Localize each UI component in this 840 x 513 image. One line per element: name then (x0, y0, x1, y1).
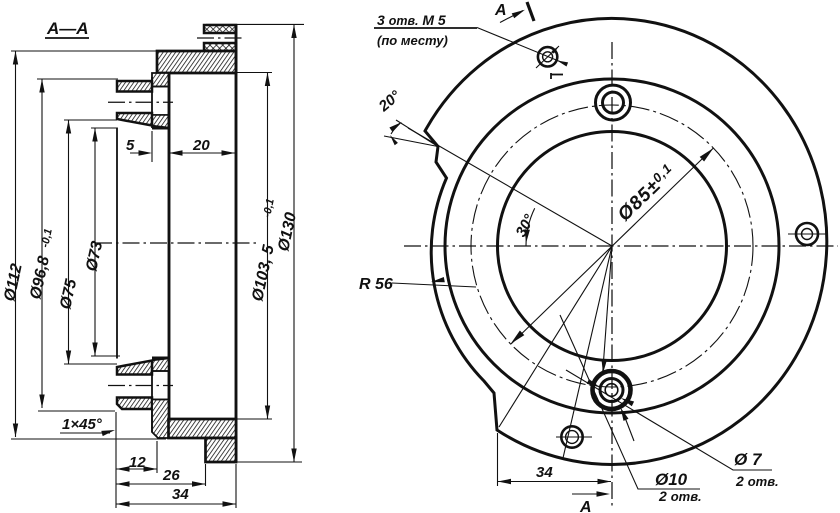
hole bottom D10 middle (600, 379, 623, 402)
arrow 34L right (223, 501, 237, 506)
upper hub hole centerline (108, 101, 173, 103)
ray 20b (384, 136, 438, 147)
vertical centerline / cutting line (611, 42, 613, 508)
svg-text:26: 26 (162, 467, 180, 484)
arrow D73 bottom (92, 343, 97, 357)
lower neck hole bottom line (152, 399, 169, 401)
arrow D130 top (291, 25, 296, 39)
hole M5 right inner (802, 229, 813, 240)
ext top D103.5 (236, 72, 272, 74)
disc right face (235, 25, 238, 462)
svg-text:2 отв.: 2 отв. (735, 473, 779, 489)
ext bottom D130 (236, 461, 302, 463)
ext top D112 (11, 50, 157, 52)
ext bottom D103.5 (236, 418, 272, 420)
arrow M5 tick (551, 46, 559, 54)
arrow D96.8 bottom (39, 395, 44, 409)
dim line 20 (168, 152, 236, 154)
arrow 5 (139, 150, 153, 155)
arrow D75 top (66, 120, 71, 134)
arrow D85 upper (700, 148, 714, 161)
arrow 34L left (116, 501, 130, 506)
svg-text:5: 5 (126, 137, 135, 154)
svg-text:Ø 7: Ø 7 (734, 450, 763, 469)
arrow D10 upper (602, 360, 607, 374)
arrow 12 left (116, 466, 130, 471)
lower neck left edge (151, 361, 153, 433)
hole bottom D7 inner (605, 384, 618, 397)
arrow 20 right (222, 150, 236, 155)
upper hub wall hatch (117, 81, 152, 92)
title underline (45, 37, 89, 39)
M5 tick line (536, 46, 559, 68)
D10 measure ray from center (603, 246, 612, 371)
M5 L-mark v (550, 73, 552, 79)
cutting plane stroke top (527, 2, 534, 21)
svg-text:34: 34 (536, 464, 553, 481)
lower neck column hatch (152, 400, 169, 439)
arrow D10 lower (621, 408, 629, 421)
dim line 34 left view (116, 503, 236, 505)
arc 30deg (526, 208, 535, 246)
arrow 20 left (169, 150, 183, 155)
main axis centerline (95, 242, 256, 244)
upper hub taper hatch (117, 113, 152, 126)
svg-text:1×45°: 1×45° (62, 416, 103, 433)
lower hub hole centerline (108, 385, 173, 387)
label D10 underline part of leader (640, 488, 700, 490)
arrow D73 top (92, 128, 97, 142)
dim line 26 (116, 483, 206, 485)
steep grazing line to D10 label (560, 315, 700, 489)
arrow 12 right (144, 466, 158, 471)
arrow D85 lower (511, 331, 525, 344)
ext top D73 (91, 127, 117, 129)
chamfer arrow (101, 430, 115, 436)
arrow M5 (557, 61, 568, 67)
view arrow A top head (512, 10, 525, 19)
arrow D75 bottom (66, 351, 71, 365)
leader D7 through hole (566, 370, 772, 470)
svg-text:3 отв. М 5: 3 отв. М 5 (377, 12, 446, 28)
ext x205.5 bottom (205, 464, 207, 486)
hole M5 top-left (538, 47, 557, 66)
dim line D73 (94, 128, 96, 356)
arrow 26 right (192, 481, 206, 486)
upper neck sliver hatch (152, 115, 169, 128)
arrow D112 top (13, 51, 18, 65)
ray through M5 bottom-left (563, 246, 612, 458)
hole M5 bottom-left centerline (556, 436, 592, 438)
ring outer circle (445, 79, 779, 413)
svg-text:Ø10: Ø10 (655, 470, 688, 489)
ray 20a (396, 120, 438, 147)
disc upper band hatch (157, 51, 236, 73)
ext top D130 (206, 23, 304, 25)
dim line D103.5 (267, 73, 269, 420)
ext bottom D96.8 (38, 410, 115, 412)
hole M5 top-left inner (543, 52, 553, 62)
dim line D85 (511, 148, 713, 344)
svg-text:2 отв.: 2 отв. (658, 488, 702, 504)
svg-text:(по месту): (по месту) (377, 33, 448, 48)
svg-text:34: 34 (172, 486, 189, 503)
lower rim solid hatch (206, 438, 237, 462)
ext x116 bottom (115, 412, 117, 508)
label M5 underline (374, 27, 477, 29)
arrow 20deg b (390, 135, 398, 145)
bore opening edge (116, 128, 118, 359)
hole M5 right (796, 223, 818, 245)
dim line D112 (15, 51, 17, 437)
ext top D96.8 (37, 78, 118, 80)
dim 34 right view ext (497, 433, 499, 486)
arrow 34R left (498, 479, 512, 484)
svg-text:R 56: R 56 (359, 276, 393, 293)
arrow 30deg (525, 229, 530, 243)
arrow 26 left (116, 481, 130, 486)
upper rim hole centerline (197, 37, 243, 39)
arrow 20deg a (389, 122, 402, 132)
arrow D10 lower tail (624, 415, 634, 441)
svg-text:A: A (579, 499, 592, 513)
disc lower band hatch (169, 419, 237, 438)
arc 20deg (391, 123, 400, 134)
arrow 34R right (598, 479, 612, 484)
upper rim band outer (cross-hatch) (204, 25, 236, 33)
leader M5 (477, 28, 566, 65)
dim line 34 right view (498, 481, 612, 483)
ring inner circle (498, 132, 727, 361)
bolt circle D85 (471, 105, 753, 387)
ext bottom D112 (11, 438, 166, 440)
ray to flat corner (499, 246, 612, 427)
upper neck hatch (152, 73, 169, 87)
svg-text:12: 12 (129, 454, 146, 471)
hole M5 right centerline (788, 233, 826, 235)
arrow D96.8 top (39, 79, 44, 93)
horizontal centerline right view (404, 245, 838, 247)
dim line 12 (116, 468, 157, 470)
arrow R56 (431, 277, 445, 282)
hole top D10 (596, 85, 631, 120)
chamfer leader (60, 432, 110, 434)
hole M5 bottom-left (561, 426, 582, 447)
ext bottom D75 (64, 363, 117, 365)
upper rim band inner (cross-hatch) (204, 43, 236, 51)
dim line D130 (293, 25, 295, 463)
ext bottom D73 (91, 355, 120, 357)
svg-text:20: 20 (192, 137, 210, 154)
svg-text:A: A (494, 2, 507, 19)
lower bore step line (152, 357, 169, 360)
recess face line (168, 73, 171, 419)
arrow D103.5 top (265, 73, 270, 87)
ext x157 bottom (156, 441, 158, 473)
lower hub wall hatch (117, 398, 152, 410)
ext top D75 (64, 119, 117, 121)
view arrow A top line (500, 11, 523, 23)
lower neck hole top line (152, 370, 169, 372)
view arrow A bottom line (572, 493, 606, 495)
ext line for 5 (151, 131, 153, 162)
leader 5 (130, 152, 150, 154)
upper bore step line (152, 127, 169, 130)
ext x236 bottom (235, 464, 237, 508)
view arrow A bottom head (597, 491, 611, 496)
hole bottom D10 outer (593, 371, 631, 409)
upper neck hole bottom line (152, 114, 169, 116)
lower hub taper hatch (117, 361, 152, 375)
upper neck hole top line (152, 86, 169, 88)
arrow D130 bottom (291, 449, 296, 463)
dim line D96.8 (41, 79, 43, 408)
leader R56 (392, 283, 476, 287)
arrow D103.5 bottom (265, 406, 270, 420)
flange outer contour (425, 18, 827, 464)
M5 L-mark h (551, 74, 563, 76)
hole top D7 (603, 92, 624, 113)
arrow D7 right (621, 398, 634, 406)
upper neck left edge (151, 77, 153, 128)
dim line D75 (68, 120, 70, 364)
arrow D7 left (587, 379, 600, 387)
ray 153 deg (notch) (408, 128, 612, 246)
hole M5 bottom-left inner (566, 431, 579, 444)
lower neck sliver hatch (152, 359, 169, 372)
svg-text:A—A: A—A (46, 19, 89, 38)
arrow D112 bottom (13, 424, 18, 438)
